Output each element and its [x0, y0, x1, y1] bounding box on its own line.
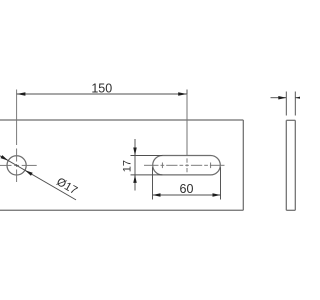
thickness dimension left tail: [271, 97, 287, 99]
thickness right extension line: [294, 92, 296, 116]
dimension 17 bottom arrow: [133, 175, 137, 183]
thickness dimension right tail: [295, 97, 300, 99]
hole vertical centerline with 150 extension: [16, 90, 18, 183]
side view bottom edge: [286, 209, 295, 211]
dimension 17 bottom extension line: [131, 174, 163, 176]
side view right edge: [294, 120, 296, 210]
hole horizontal centerline: [0, 164, 37, 166]
hole leader upper arrow: [1, 155, 9, 161]
slot vertical centerline: [186, 94, 188, 172]
thickness left extension line: [285, 92, 287, 116]
side view left edge: [285, 120, 287, 210]
hole leader lower arrow: [25, 170, 33, 176]
slot right arc center tick: [210, 163, 212, 169]
slot horizontal centerline: [144, 164, 225, 166]
dimension 60 right extension line: [220, 167, 222, 199]
dimension 17 line: [134, 139, 136, 191]
dimension 60 left arrow: [153, 193, 161, 197]
slot left arc center tick: [161, 163, 163, 169]
dimension 60 left extension line: [152, 167, 154, 199]
slot outline: [153, 156, 221, 175]
svg-text:17: 17: [121, 160, 133, 172]
svg-text:150: 150: [91, 81, 112, 95]
dimension 150 line: [17, 93, 187, 95]
plate bottom edge: [0, 209, 243, 211]
thickness left arrow: [278, 96, 286, 100]
plate top edge: [0, 119, 243, 121]
dimension 17 top arrow: [133, 148, 137, 156]
plate right edge: [242, 120, 244, 210]
hole circle: [7, 156, 26, 175]
dimension 60 line: [153, 194, 221, 196]
thickness right arrow: [295, 96, 303, 100]
dimension 60 right arrow: [213, 193, 221, 197]
dimension 150 right arrow: [178, 92, 187, 96]
dimension 150 left arrow: [17, 92, 26, 96]
dimension 150 right extension line: [186, 90, 188, 156]
dimension 17 top extension line: [131, 155, 163, 157]
svg-text:60: 60: [180, 182, 194, 196]
hole diameter leader line: [0, 156, 76, 200]
side view top edge: [286, 119, 295, 121]
